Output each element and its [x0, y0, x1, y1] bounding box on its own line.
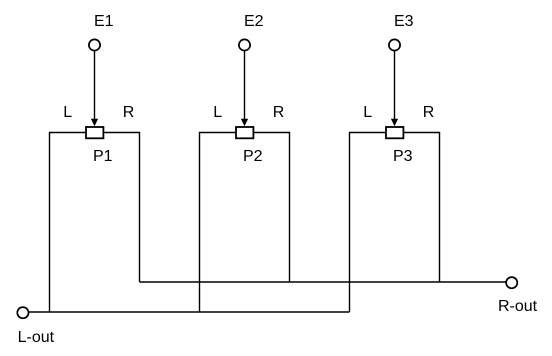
svg-text:L-out: L-out — [18, 329, 55, 346]
svg-text:P2: P2 — [243, 148, 263, 165]
node E2 input terminal — [239, 39, 250, 50]
node E1 input terminal — [89, 39, 100, 50]
wire P2 left terminal to L bus — [200, 133, 237, 313]
wire E1 wiper shaft — [94, 51, 96, 120]
svg-text:R-out: R-out — [498, 298, 538, 315]
svg-text:L: L — [63, 104, 72, 121]
potentiometer P2 body — [236, 127, 253, 138]
wire R bus — [140, 281, 506, 283]
wire E3 wiper shaft — [394, 51, 396, 120]
svg-text:R: R — [123, 104, 135, 121]
svg-text:P3: P3 — [393, 148, 413, 165]
svg-text:E1: E1 — [94, 13, 114, 30]
svg-text:L: L — [363, 104, 372, 121]
arrowhead P3 wiper — [391, 119, 398, 127]
potentiometer P1 body — [86, 127, 103, 138]
wire P2 right terminal to R bus — [253, 133, 289, 283]
svg-text:P1: P1 — [93, 148, 113, 165]
arrowhead P1 wiper — [91, 119, 98, 127]
svg-text:L: L — [213, 104, 222, 121]
svg-text:R: R — [273, 104, 285, 121]
wire P3 right terminal to R bus — [403, 133, 439, 283]
arrowhead P2 wiper — [241, 119, 248, 127]
wire P1 right terminal to R bus — [103, 133, 139, 283]
node R-out output terminal — [506, 277, 517, 288]
svg-text:E3: E3 — [394, 13, 414, 30]
wire P1 left terminal to L bus — [50, 133, 87, 313]
wire P3 left terminal to L bus — [350, 133, 387, 313]
node L-out output terminal — [17, 307, 28, 318]
wire L bus — [29, 311, 350, 313]
svg-text:E2: E2 — [244, 13, 264, 30]
svg-text:R: R — [423, 104, 435, 121]
wire E2 wiper shaft — [244, 51, 246, 120]
node E3 input terminal — [389, 39, 400, 50]
potentiometer P3 body — [386, 127, 403, 138]
